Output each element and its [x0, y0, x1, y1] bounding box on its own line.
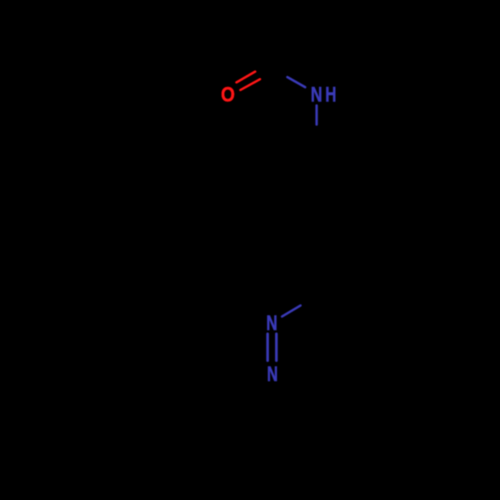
- svg-text:H: H: [325, 82, 336, 106]
- svg-text:N: N: [267, 362, 278, 386]
- bond C-N up-right (nitrogen half): [282, 306, 301, 317]
- bond C-NH (nitrogen half): [287, 77, 305, 87]
- C=O double bond (oxygen half, line 2): [240, 79, 260, 90]
- svg-text:N: N: [266, 311, 277, 335]
- svg-text:N: N: [311, 82, 323, 106]
- svg-text:O: O: [221, 82, 235, 106]
- C=O double bond (oxygen half, line 1): [236, 72, 255, 83]
- N=N double bond line right: [275, 334, 278, 361]
- bond NH-C downward (nitrogen half): [315, 105, 317, 124]
- N=N double bond line left: [266, 334, 269, 361]
